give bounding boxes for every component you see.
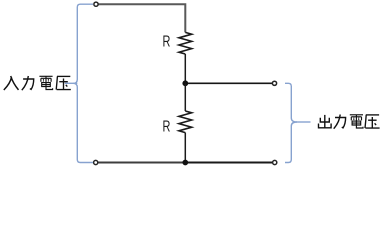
svg-text:R: R: [163, 119, 171, 136]
svg-text:R: R: [163, 34, 171, 51]
